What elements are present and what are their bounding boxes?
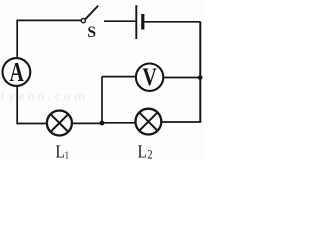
wire top-left horizontal xyxy=(17,19,82,21)
svg-text:Jyeoo.com: Jyeoo.com xyxy=(0,90,89,105)
svg-text:L2: L2 xyxy=(138,141,153,161)
junction node (parallel branch to lamp row) xyxy=(100,121,105,126)
wire left vertical upper (corner to ammeter) xyxy=(16,20,18,59)
wire voltmeter left xyxy=(102,76,136,78)
wire bottom-left horizontal xyxy=(16,123,47,125)
wire junction to L2 xyxy=(102,122,136,124)
junction node (voltmeter to right rail) xyxy=(198,75,203,80)
wire switch to battery xyxy=(104,20,135,22)
label L2 (lamp L2 designator) xyxy=(138,141,153,161)
switch S xyxy=(81,6,98,41)
lamp L2 xyxy=(136,109,162,135)
voltmeter V xyxy=(136,63,163,91)
lamp L1 xyxy=(47,111,72,136)
battery (cell) xyxy=(136,5,143,39)
svg-text:S: S xyxy=(87,24,96,41)
wire bottom-right horizontal xyxy=(161,121,201,123)
wire right vertical xyxy=(199,22,201,123)
wire voltmeter right xyxy=(163,77,200,79)
wire L1 to junction xyxy=(72,122,102,124)
svg-text:V: V xyxy=(142,63,157,91)
ammeter A xyxy=(3,58,31,88)
label L1 (lamp L1 designator) xyxy=(56,141,70,161)
svg-text:L1: L1 xyxy=(56,141,70,161)
wire left vertical lower (ammeter to bottom corner) xyxy=(16,86,18,124)
svg-text:A: A xyxy=(9,58,24,88)
wire battery to top-right corner xyxy=(144,21,200,23)
wire parallel branch vertical xyxy=(101,77,103,124)
